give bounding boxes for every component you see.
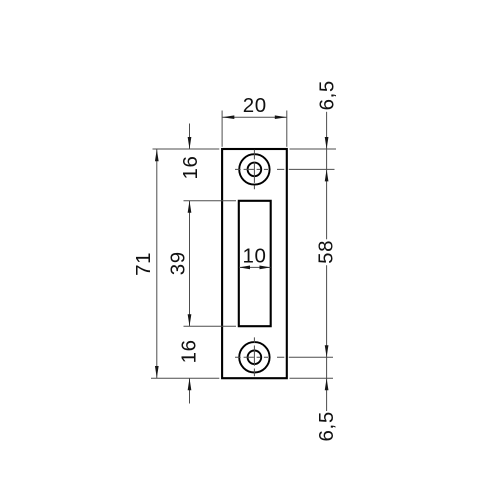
dim line right chain upper: [326, 112, 328, 240]
dim line right chain lower: [326, 265, 328, 411]
svg-text:16: 16: [177, 339, 200, 363]
arrow 10 right: [260, 266, 271, 270]
arrow 71 bottom: [155, 366, 159, 378]
slot (latch opening): [239, 201, 271, 326]
arrow 58 bottom (down): [325, 345, 329, 357]
dim line 20: [222, 116, 286, 118]
arrow shared slot-top (up): [188, 201, 192, 213]
arrow 6.5-bottom lower (up): [325, 378, 329, 390]
screw hole top outer: [239, 154, 269, 184]
arrow shared slot-bottom (down): [188, 314, 192, 326]
arrow 20 left: [222, 115, 234, 119]
arrow 16-bottom lower (up): [188, 378, 192, 390]
arrow 71 top: [155, 149, 159, 161]
plate outline: [222, 149, 287, 378]
svg-text:6,5: 6,5: [315, 80, 338, 110]
svg-text:58: 58: [315, 240, 338, 264]
centerline top hole vertical: [253, 150, 255, 190]
dim line 71: [156, 149, 158, 378]
dim leader above 16 top: [189, 124, 191, 150]
centerline bottom hole horizontal: [235, 356, 333, 358]
extension line plate bottom right: [290, 377, 334, 379]
svg-text:20: 20: [243, 94, 267, 117]
extension line plate top left: [153, 148, 220, 150]
extension line top-left vertical (20 dim): [221, 111, 223, 147]
svg-text:6,5: 6,5: [315, 411, 338, 441]
svg-text:16: 16: [179, 155, 202, 179]
extension line top-right vertical (20 dim): [286, 111, 288, 147]
arrow 58 top (up): [325, 169, 329, 181]
arrow 10 left: [239, 266, 250, 270]
extension line plate bottom left: [151, 377, 219, 379]
centerline top hole horizontal: [235, 168, 335, 170]
svg-text:39: 39: [166, 251, 189, 275]
dim leader below 16 bottom: [189, 378, 191, 403]
screw hole top inner: [248, 163, 262, 177]
dim line 10: [239, 266, 271, 268]
centerline bottom hole vertical: [253, 337, 255, 376]
arrow 20 right: [275, 115, 287, 119]
extension line plate top right: [290, 148, 337, 150]
svg-text:71: 71: [132, 252, 155, 276]
screw hole bottom inner: [248, 351, 262, 365]
arrow 16-top upper (down): [188, 137, 192, 149]
extension line slot top left: [184, 200, 237, 202]
arrow 6.5-top upper (down): [325, 137, 329, 149]
screw hole bottom outer: [239, 342, 269, 372]
extension line slot bottom left: [184, 325, 237, 327]
svg-text:10: 10: [242, 244, 266, 267]
dim line 39: [189, 201, 191, 326]
